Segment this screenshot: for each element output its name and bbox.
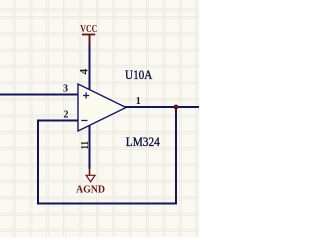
svg-text:AGND: AGND xyxy=(76,184,105,195)
svg-text:3: 3 xyxy=(63,84,68,95)
wire pin11 to AGND xyxy=(89,125,91,169)
wire pin3 input net xyxy=(0,94,78,96)
wire pin4 to VCC xyxy=(89,44,91,90)
op-amp plus symbol (non-inverting input marker) xyxy=(83,92,89,98)
svg-text:LM324: LM324 xyxy=(126,135,161,149)
power port AGND xyxy=(86,168,95,182)
svg-text:U10A: U10A xyxy=(125,68,152,82)
op-amp U10A body xyxy=(78,84,126,131)
junction dot at output xyxy=(174,105,179,110)
svg-text:11: 11 xyxy=(79,141,91,150)
op-amp minus symbol (inverting input marker) xyxy=(81,120,87,122)
wire feedback loop (pin 2 to output junction) xyxy=(38,107,176,204)
svg-text:4: 4 xyxy=(78,69,90,75)
svg-text:1: 1 xyxy=(136,96,141,107)
svg-text:VCC: VCC xyxy=(80,24,97,35)
power port VCC xyxy=(82,35,95,45)
svg-text:2: 2 xyxy=(64,110,69,121)
wire output net (pin 1 to right edge) xyxy=(125,106,199,108)
